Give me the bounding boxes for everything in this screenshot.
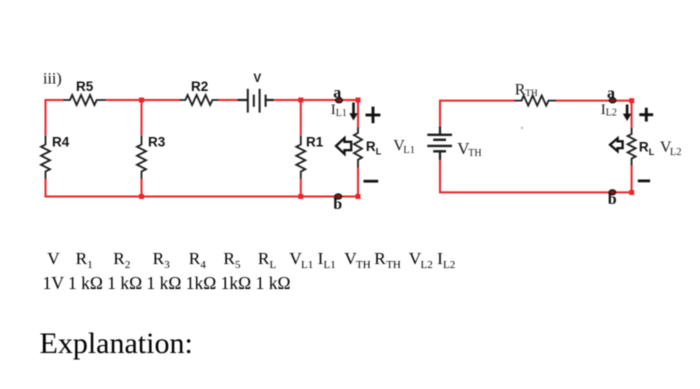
svg-text:L1: L1 <box>301 259 313 271</box>
svg-text:L: L <box>270 259 277 271</box>
svg-text:R: R <box>639 139 649 154</box>
svg-text:L: L <box>376 147 382 157</box>
svg-text:R: R <box>153 249 165 268</box>
svg-text:Explanation:: Explanation: <box>40 327 193 360</box>
svg-text:L2: L2 <box>443 259 455 271</box>
svg-text:V: V <box>254 73 262 85</box>
svg-text:L1: L1 <box>336 108 347 119</box>
svg-text:V: V <box>47 249 60 268</box>
svg-text:R4: R4 <box>52 135 70 150</box>
svg-text:L2: L2 <box>421 259 433 271</box>
svg-text:1V 1 kΩ 1 kΩ 1 kΩ 1kΩ 1kΩ 1 kΩ: 1V 1 kΩ 1 kΩ 1 kΩ 1kΩ 1kΩ 1 kΩ <box>43 273 291 293</box>
svg-text:b: b <box>333 196 342 213</box>
svg-text:TH: TH <box>386 259 401 271</box>
svg-text:R: R <box>366 139 376 154</box>
svg-text:R: R <box>515 81 526 98</box>
svg-text:R: R <box>258 249 270 268</box>
svg-text:TH: TH <box>356 259 371 271</box>
svg-text:R: R <box>374 249 386 268</box>
svg-text:R: R <box>113 249 125 268</box>
svg-text:L2: L2 <box>606 108 617 119</box>
svg-text:iii): iii) <box>43 71 62 88</box>
svg-text:1: 1 <box>87 259 93 271</box>
svg-text:R3: R3 <box>148 135 166 150</box>
svg-text:R: R <box>76 249 88 268</box>
svg-text:L1: L1 <box>324 259 336 271</box>
svg-text:L1: L1 <box>403 145 415 156</box>
svg-text:TH: TH <box>525 88 538 98</box>
svg-text:5: 5 <box>235 259 241 271</box>
svg-text:a: a <box>607 85 615 102</box>
svg-text:R: R <box>189 249 201 268</box>
svg-text:L2: L2 <box>670 147 682 158</box>
svg-text:a: a <box>333 85 341 102</box>
svg-text:R2: R2 <box>191 79 208 94</box>
svg-text:R5: R5 <box>76 79 94 94</box>
svg-text:3: 3 <box>164 259 170 271</box>
svg-text:L: L <box>649 147 655 157</box>
svg-text:R: R <box>223 249 235 268</box>
svg-text:TH: TH <box>468 148 481 159</box>
svg-text:b: b <box>608 191 617 208</box>
svg-text:2: 2 <box>125 259 130 271</box>
svg-text:R1: R1 <box>306 135 324 150</box>
svg-text:4: 4 <box>200 259 206 271</box>
